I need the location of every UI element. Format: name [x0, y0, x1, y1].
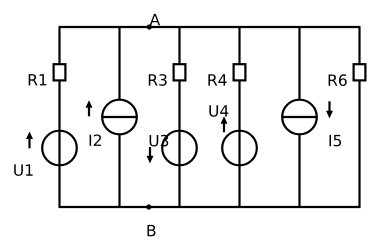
arrow U3 (down): [147, 147, 154, 163]
resistor R4: [234, 64, 246, 80]
label U3: [150, 135, 169, 147]
voltage source U1: [42, 131, 77, 166]
node A: [147, 24, 152, 29]
label U1: [14, 164, 32, 176]
wire branch5 top (rail to I5): [298, 27, 300, 100]
label R1: [29, 74, 47, 85]
arrow U1 (up): [26, 132, 33, 149]
label A: [150, 14, 160, 25]
wire branch6 bottom (R6 to bottom rail): [358, 81, 360, 207]
resistor R3: [174, 64, 186, 80]
wire branch2 bottom (I2 to bottom rail): [118, 134, 120, 207]
label U4: [209, 105, 228, 117]
label R6: [329, 74, 347, 86]
current source I5: [282, 100, 317, 135]
wire branch4 bottom (R4 to bottom rail, through U4): [238, 81, 240, 207]
voltage source U3: [162, 131, 197, 166]
voltage source U4: [222, 131, 257, 166]
arrow I5 (down): [326, 101, 333, 118]
label I2: [90, 134, 101, 146]
arrow U4 (up): [221, 116, 228, 132]
wire branch6 top (rail to R6): [358, 27, 360, 64]
label R3: [149, 74, 167, 86]
wire branch2 top (rail to I2): [118, 27, 120, 100]
wire branch3 bottom (R3 to bottom rail, through U3): [178, 81, 180, 207]
label B: [148, 225, 156, 236]
wire branch1 top (rail to R1): [58, 27, 60, 64]
label I5: [330, 135, 342, 147]
wire bottom rail: [59, 206, 361, 208]
wire branch1 bottom (R1 to bottom rail, through U1): [58, 81, 60, 207]
label R4: [208, 74, 226, 85]
resistor R1: [54, 64, 66, 80]
wire branch4 top (rail to R4): [238, 27, 240, 64]
wire top rail: [59, 26, 361, 28]
wire branch5 bottom (I5 to bottom rail): [298, 134, 300, 207]
wire branch3 top (rail to R3): [178, 27, 180, 64]
arrow I2 (up): [86, 100, 93, 116]
resistor R6: [354, 64, 366, 80]
node B: [146, 204, 151, 209]
current source I2: [102, 100, 137, 135]
